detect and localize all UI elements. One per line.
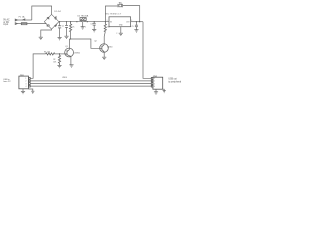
resistor R2 label — [53, 59, 57, 63]
ground C2 — [64, 36, 68, 38]
svg-text:2: 2 — [85, 26, 86, 28]
ground C1 — [58, 38, 62, 40]
svg-text:Q2: Q2 — [94, 41, 97, 43]
wire U1 out stub — [131, 21, 143, 23]
node R3 junction — [70, 21, 71, 22]
ground U2 — [81, 27, 85, 29]
transistor Q1 — [65, 48, 74, 57]
node C1 junction — [59, 21, 60, 22]
svg-text:USB out: USB out — [168, 77, 177, 80]
resistor R4 — [104, 22, 109, 32]
wire crystal loop left riser — [105, 6, 117, 22]
wire CN2 shield — [163, 89, 165, 90]
svg-text:input: input — [3, 23, 8, 26]
ground CN1 — [21, 91, 25, 93]
wire Q1 collector — [68, 39, 70, 50]
svg-text:to peripheral: to peripheral — [168, 80, 181, 83]
svg-text:from PC: from PC — [3, 80, 11, 83]
node label 9V input text — [3, 19, 10, 27]
input terminal upper — [15, 19, 17, 21]
ground U1 — [119, 33, 123, 35]
wire Q2 emitter — [103, 52, 105, 57]
ground CN2 — [154, 92, 158, 94]
svg-text:2N3904: 2N3904 — [74, 53, 80, 55]
bridge rectifier D1-D4 — [44, 14, 59, 29]
node label USB in text — [3, 79, 11, 83]
capacitor C2 — [65, 22, 68, 37]
wire CN2 gnd stub — [155, 89, 157, 92]
node crystal out junction — [139, 21, 140, 22]
ground CN1 shield — [31, 91, 34, 93]
wire R3 to Q1 collector node — [70, 32, 72, 39]
resistor R1 — [46, 53, 55, 55]
fuse F1 — [21, 23, 27, 25]
ground bridge — [39, 37, 43, 39]
node Q1 collector junction — [70, 38, 71, 39]
transistor Q2 — [100, 44, 109, 53]
svg-text:4: 4 — [154, 86, 155, 88]
wire U1 gnd stub — [120, 27, 122, 34]
regulator U2 — [80, 18, 86, 27]
resistor R2 — [58, 54, 60, 66]
wire R1 to base node — [54, 53, 64, 55]
wire Q1 emitter — [70, 57, 72, 65]
wire bus D+ — [30, 83, 151, 85]
ground C5 — [134, 30, 138, 32]
node label USB out text — [168, 77, 181, 83]
ground R2 — [57, 65, 61, 67]
switch S1 — [22, 19, 25, 21]
node C2 junction — [66, 21, 67, 22]
wire bridge bottom to ground — [41, 29, 52, 37]
wire riser to bridge top — [32, 6, 52, 20]
connector CN2 — [151, 77, 162, 89]
ground Q2 — [102, 57, 106, 59]
wire CN1 pin1 riser — [30, 54, 45, 78]
node Q1 base junction — [59, 53, 60, 54]
svg-text:C3: C3 — [90, 23, 92, 25]
wire CN1 shield — [29, 89, 33, 91]
ground Q1 — [69, 65, 73, 67]
wire lower input — [17, 23, 21, 25]
wire bus D- — [30, 80, 151, 82]
ground CN2 shield — [163, 91, 166, 93]
wire bus GND — [30, 85, 151, 87]
input terminal lower — [15, 23, 17, 25]
wire Q1 collector to Q2 base — [69, 39, 99, 48]
wire VBUS riser to CN2 — [143, 22, 151, 79]
svg-text:Q1: Q1 — [65, 46, 68, 48]
connector CN1 — [19, 76, 30, 89]
svg-text:F1 1A: F1 1A — [19, 15, 25, 18]
node U2 out junction — [87, 21, 88, 22]
ground C3 — [92, 30, 96, 32]
svg-text:D1-D4: D1-D4 — [54, 11, 61, 13]
wire CN1 gnd stub — [22, 89, 24, 92]
wire fuse to bridge left — [27, 23, 46, 25]
svg-text:C1: C1 — [62, 26, 64, 28]
svg-text:OUT: OUT — [126, 21, 130, 23]
wire upper input — [17, 19, 31, 21]
svg-text:2: 2 — [116, 33, 117, 35]
svg-text:2: 2 — [154, 81, 155, 83]
node U2 in junction — [76, 21, 77, 22]
node crystal rail junction — [105, 21, 106, 22]
crystal Y1 — [118, 4, 123, 7]
capacitor C3 — [90, 22, 95, 30]
capacitor C1 — [58, 22, 64, 38]
wire R4 to Q2 collector — [104, 32, 105, 45]
svg-text:3: 3 — [154, 83, 155, 85]
svg-text:MC78M05CT: MC78M05CT — [106, 14, 122, 16]
svg-text:U2 78L05A: U2 78L05A — [77, 15, 88, 18]
wire +V rail — [59, 21, 109, 23]
capacitor C5 — [131, 22, 138, 30]
svg-text:2N3904: 2N3904 — [107, 47, 112, 49]
node C5 junction — [136, 21, 137, 22]
svg-text:1: 1 — [154, 78, 155, 80]
resistor R3 — [70, 22, 76, 32]
wire crystal loop right riser — [123, 6, 140, 22]
svg-text:C5: C5 — [131, 26, 133, 28]
IC U1 box — [109, 17, 131, 27]
node C3 junction — [94, 21, 95, 22]
